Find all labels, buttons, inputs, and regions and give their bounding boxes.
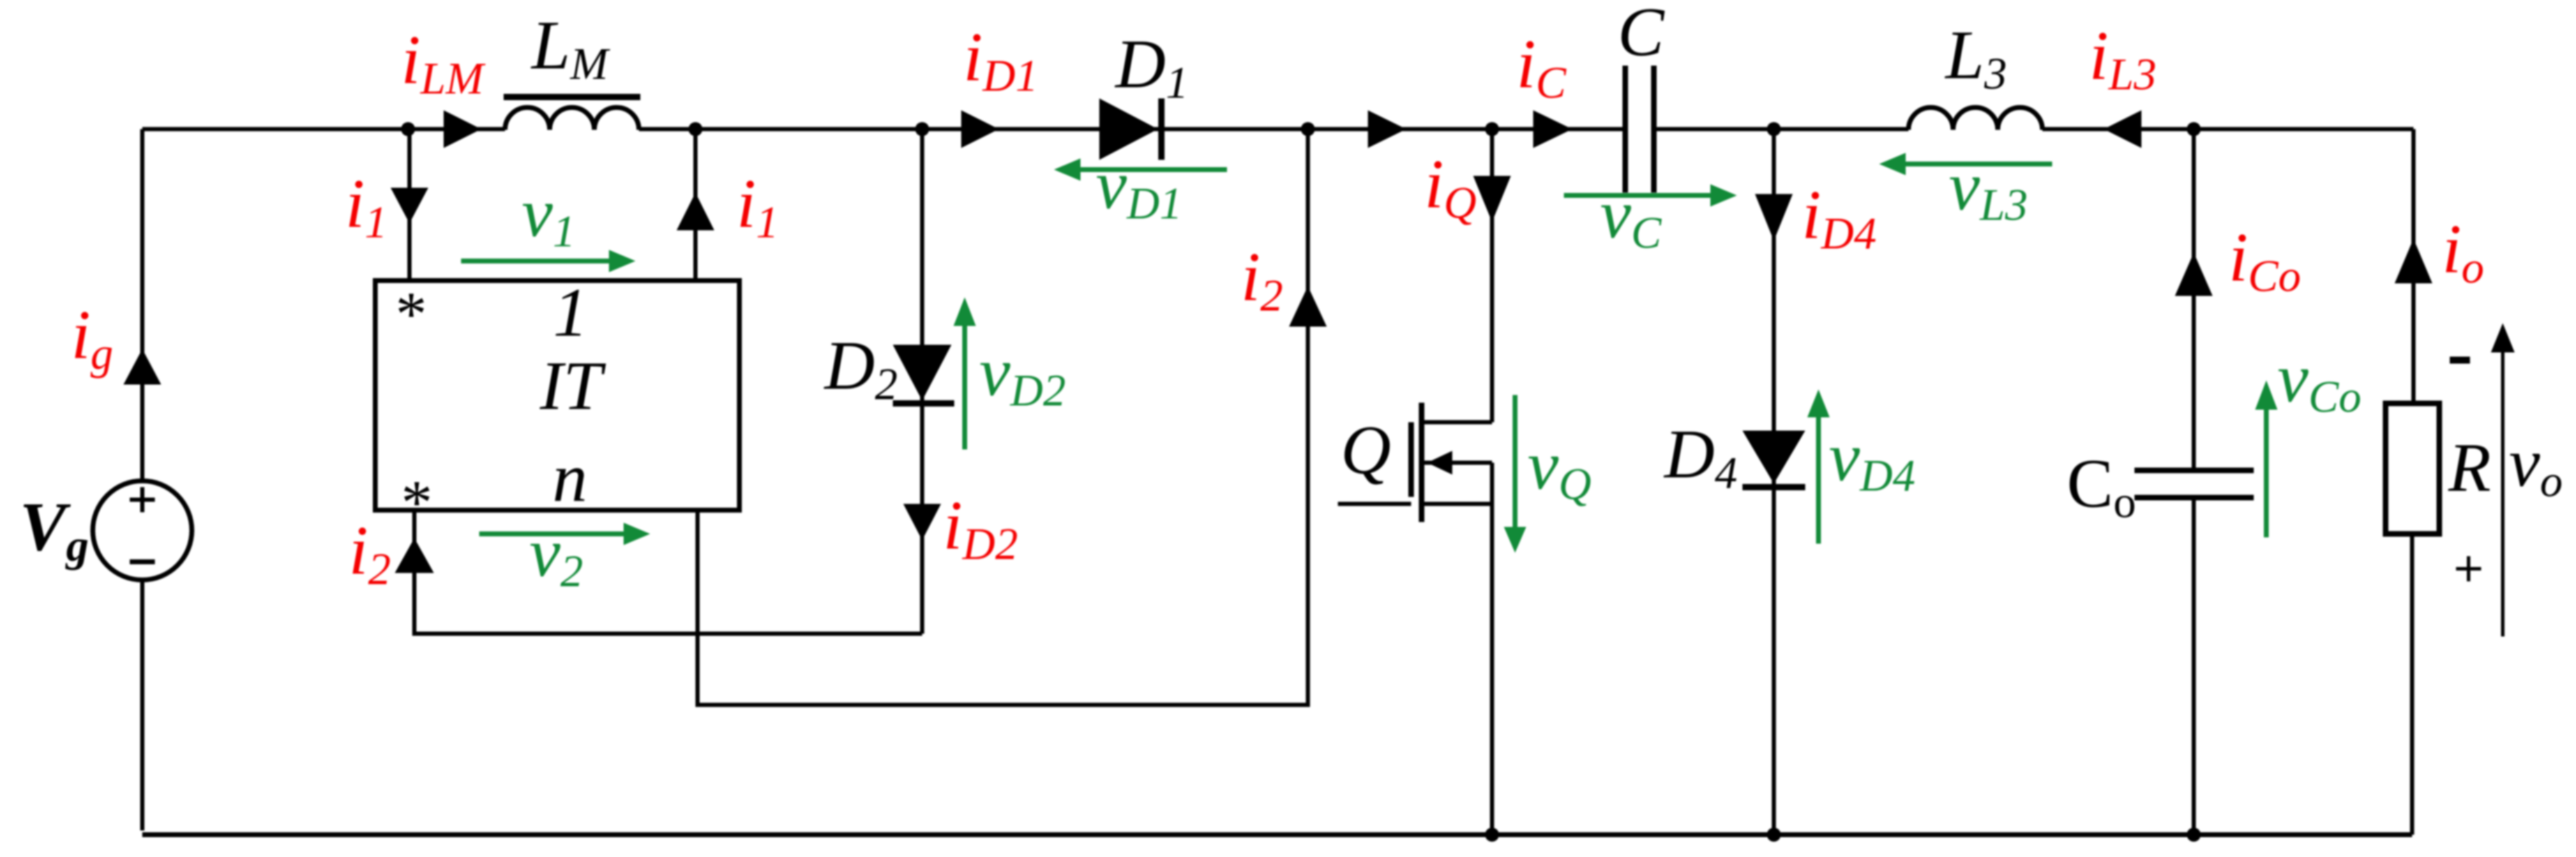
svg-text:vCo: vCo <box>2277 339 2361 422</box>
svg-text:i2: i2 <box>349 512 391 595</box>
svg-text:v1: v1 <box>522 174 575 257</box>
svg-text:*: * <box>401 468 432 537</box>
svg-text:LM: LM <box>530 6 611 89</box>
svg-text:vo: vo <box>2509 424 2563 507</box>
svg-text:i1: i1 <box>737 165 778 248</box>
svg-text:vD2: vD2 <box>979 333 1066 416</box>
svg-text:vD4: vD4 <box>1829 418 1915 501</box>
svg-text:iCo: iCo <box>2229 218 2301 301</box>
svg-text:C: C <box>1618 0 1665 70</box>
svg-text:Co: Co <box>2067 445 2136 528</box>
svg-text:iD4: iD4 <box>1802 176 1876 259</box>
svg-text:D1: D1 <box>1114 25 1189 108</box>
svg-text:ig: ig <box>71 296 113 379</box>
svg-text:vL3: vL3 <box>1949 147 2028 230</box>
svg-text:D4: D4 <box>1663 415 1738 498</box>
svg-text:iLM: iLM <box>401 21 486 104</box>
svg-text:iC: iC <box>1516 25 1567 108</box>
svg-text:i2: i2 <box>1241 238 1283 321</box>
svg-text:*: * <box>396 280 427 349</box>
svg-text:iD2: iD2 <box>943 486 1018 569</box>
svg-text:Q: Q <box>1341 411 1391 489</box>
svg-text:iL3: iL3 <box>2089 17 2156 100</box>
svg-text:iD1: iD1 <box>963 18 1038 101</box>
svg-text:n: n <box>552 439 587 516</box>
svg-text:v2: v2 <box>529 514 583 597</box>
svg-text:io: io <box>2442 210 2484 293</box>
svg-text:vQ: vQ <box>1528 426 1591 509</box>
svg-text:i1: i1 <box>345 165 387 248</box>
svg-text:iQ: iQ <box>1424 145 1477 228</box>
svg-text:R: R <box>2448 428 2491 506</box>
svg-text:1: 1 <box>553 274 588 351</box>
svg-text:IT: IT <box>539 347 606 424</box>
svg-text:vD1: vD1 <box>1096 146 1182 229</box>
svg-text:L3: L3 <box>1944 16 2007 99</box>
svg-text:D2: D2 <box>823 327 898 410</box>
svg-text:Vg: Vg <box>20 488 89 571</box>
